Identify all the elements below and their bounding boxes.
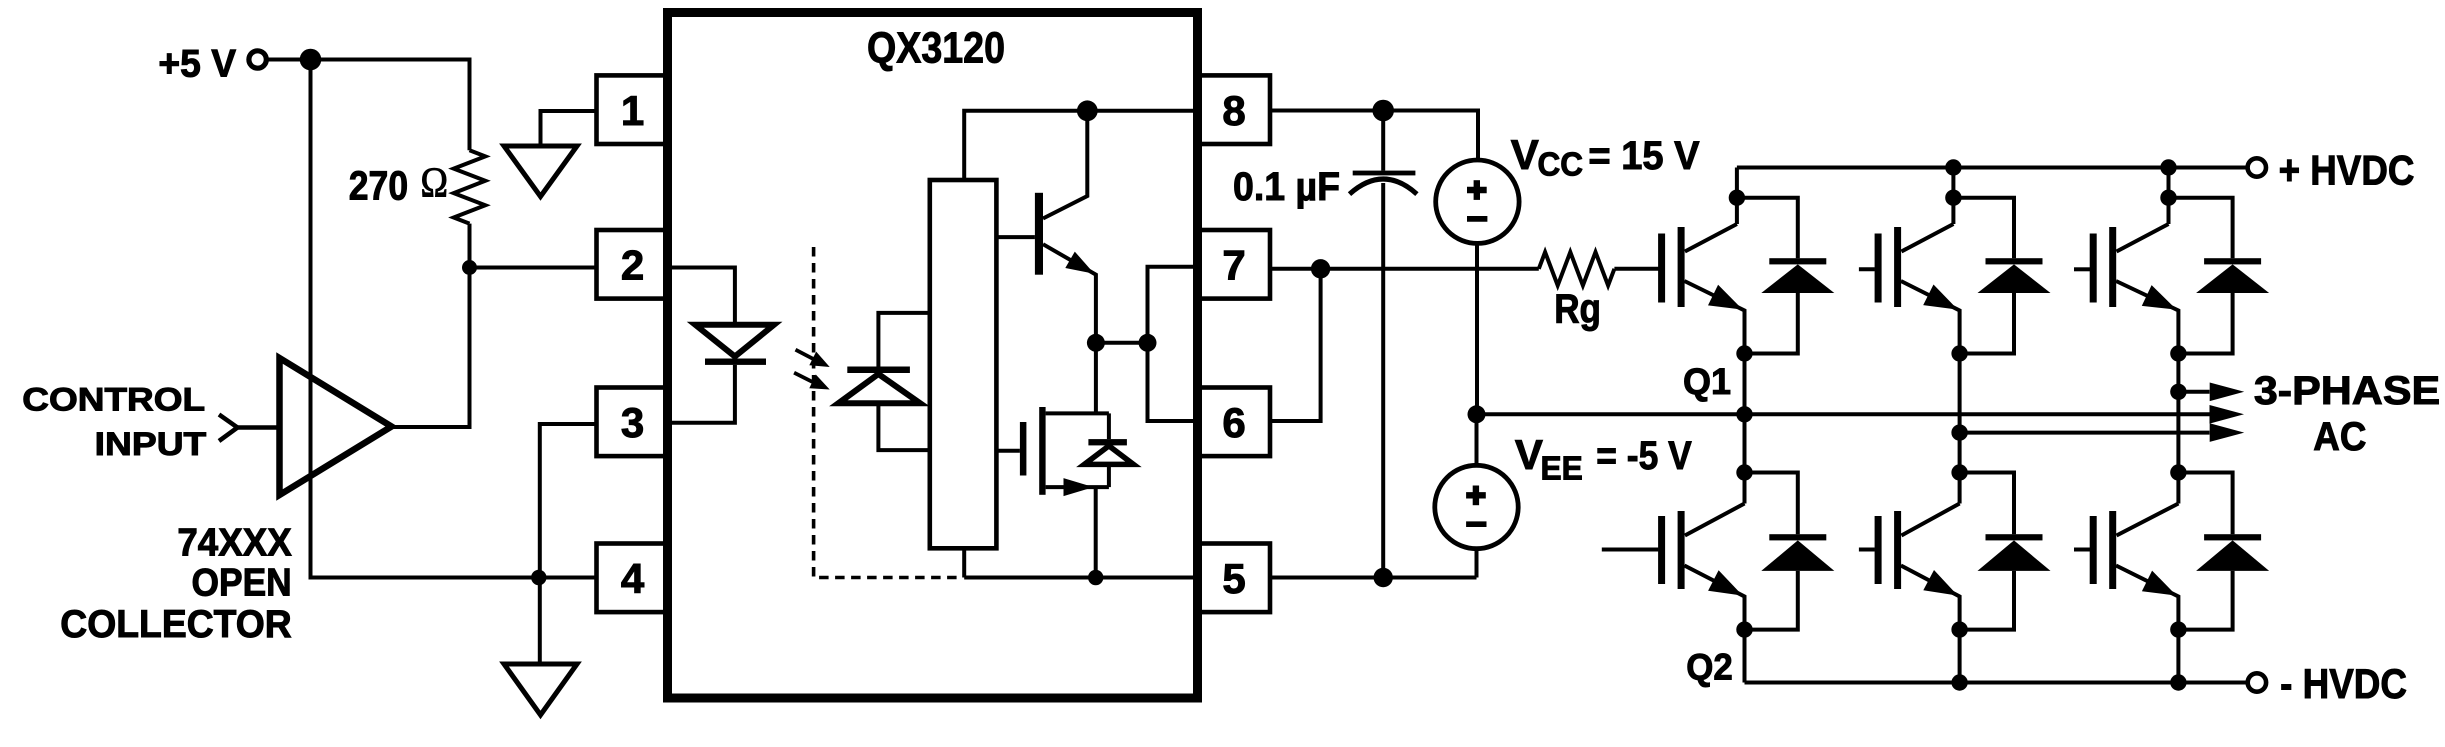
buffer 74XXX triangle bbox=[280, 358, 392, 495]
junction VEE/phase node bbox=[1468, 405, 1486, 423]
pin 7 box bbox=[1198, 230, 1270, 299]
wire node down to ground bbox=[538, 578, 542, 665]
svg-text:= -5 V: = -5 V bbox=[1596, 434, 1692, 478]
capacitor C1 curved plate bbox=[1350, 179, 1417, 194]
wire emitter to -HVDC leg 2 bbox=[1958, 630, 1962, 683]
svg-text:0.1 µF: 0.1 µF bbox=[1233, 165, 1340, 209]
pin 8 box bbox=[1198, 75, 1270, 144]
MOSFET source down lead bbox=[1094, 487, 1098, 577]
svg-text:3-PHASE: 3-PHASE bbox=[2254, 369, 2440, 413]
svg-text:OPEN: OPEN bbox=[192, 562, 292, 605]
capacitor C1 top plate bbox=[1353, 171, 1416, 176]
svg-text:1: 1 bbox=[621, 87, 644, 134]
-HVDC terminal circle bbox=[2248, 673, 2266, 691]
MOSFET gate lead bbox=[996, 449, 1020, 453]
+HVDC rail bbox=[1737, 166, 2248, 170]
svg-text:= 15 V: = 15 V bbox=[1588, 134, 1699, 178]
capacitor C1 bottom lead bbox=[1381, 183, 1385, 578]
wire Rg to Q1 gate bbox=[1614, 267, 1658, 271]
junction phase node leg 2 bbox=[1951, 424, 1967, 440]
junction +HVDC rail leg 3 bbox=[2160, 159, 2176, 175]
junction pin5 internal node bbox=[1088, 570, 1103, 585]
wire resistor bottom to pin 2 bbox=[468, 224, 472, 268]
svg-text:INPUT: INPUT bbox=[95, 426, 207, 462]
pin 3 box bbox=[597, 388, 669, 457]
pin 6 box bbox=[1198, 388, 1270, 457]
transistor top IGBT phase C bbox=[2074, 168, 2187, 362]
capacitor C1 top lead bbox=[1381, 111, 1385, 171]
MOSFET gate bar bbox=[1020, 422, 1027, 476]
wire node to pin 4 bbox=[539, 576, 597, 580]
+HVDC terminal circle bbox=[2248, 158, 2266, 176]
source VEE circle bbox=[1435, 465, 1518, 548]
op-amp IC QX3120 body bbox=[668, 13, 1198, 699]
photodiode cathode bar bbox=[847, 367, 910, 374]
light arrow 2 bbox=[794, 373, 817, 385]
svg-text:EE: EE bbox=[1541, 449, 1583, 486]
wire buffer output up to pin2 node bbox=[393, 268, 470, 428]
svg-text:V: V bbox=[1511, 131, 1539, 178]
svg-text:Q2: Q2 bbox=[1686, 646, 1733, 688]
junction phase node leg 3 bbox=[2170, 384, 2186, 400]
MOSFET channel bar bbox=[1039, 407, 1045, 495]
wire phase drop leg 3 bbox=[2176, 354, 2180, 473]
junction resistor/pin2/buffer-output node bbox=[462, 260, 477, 275]
svg-text:Rg: Rg bbox=[1554, 285, 1601, 331]
svg-text:4: 4 bbox=[621, 555, 645, 602]
wire phase B bbox=[1960, 431, 2210, 435]
junction pin7/pin6 node bbox=[1311, 259, 1330, 278]
transistor Q2 (lower IGBT) bbox=[1602, 464, 1753, 638]
wire LED cathode to pin 3 bbox=[671, 365, 735, 423]
body diode anode lead bbox=[1107, 464, 1111, 487]
wire pin 7 to Rg bbox=[1270, 267, 1539, 271]
wire emitter to -HVDC leg 3 bbox=[2176, 630, 2180, 683]
diode antiparallel bottom leg 1 bbox=[1745, 473, 1835, 630]
body diode cathode lead bbox=[1107, 413, 1111, 439]
svg-text:V: V bbox=[1515, 431, 1543, 478]
wire phase drop leg 1 bbox=[1743, 354, 1747, 473]
wire output nodes bbox=[1096, 341, 1148, 345]
svg-text:CONTROL: CONTROL bbox=[22, 382, 205, 418]
photodiode triangle bbox=[838, 374, 920, 403]
wire pin 3 to node bbox=[540, 424, 597, 578]
body diode triangle bbox=[1084, 446, 1133, 465]
junction -HVDC rail leg 2 bbox=[1951, 674, 1967, 690]
diode antiparallel bottom leg 3 bbox=[2178, 473, 2269, 630]
resistor Rg bbox=[1539, 252, 1615, 285]
svg-text:6: 6 bbox=[1222, 399, 1245, 446]
VCC minus sign bbox=[1467, 216, 1487, 222]
MOSFET drain lead bbox=[1094, 343, 1098, 414]
transistor bottom IGBT phase C bbox=[2074, 464, 2187, 638]
wire pin2 to LED anode bbox=[671, 268, 735, 323]
svg-text:8: 8 bbox=[1222, 87, 1245, 134]
MOSFET source wire with arrow bbox=[1046, 485, 1109, 489]
wire photodiode cathode to amp bbox=[878, 313, 929, 367]
svg-text:AC: AC bbox=[2313, 415, 2366, 459]
VEE plus sign bbox=[1466, 492, 1486, 498]
wire +5V rail down to pin4 net bbox=[311, 60, 539, 578]
svg-text:74XXX: 74XXX bbox=[177, 521, 292, 564]
svg-text:QX3120: QX3120 bbox=[867, 24, 1005, 73]
VEE minus sign bbox=[1466, 521, 1486, 527]
wire chevron to buffer input bbox=[238, 425, 279, 430]
wire pin 8 to Vcc bbox=[1270, 111, 1478, 161]
junction pin3/pin4/ground node bbox=[531, 570, 546, 585]
wire node B to pin 7 bbox=[1148, 267, 1198, 343]
svg-text:3: 3 bbox=[621, 399, 644, 446]
wire amp bottom to pin 5 bbox=[964, 548, 1197, 577]
wire pin 6 up to pin 7 net bbox=[1270, 269, 1321, 421]
+5V terminal circle bbox=[249, 51, 266, 68]
svg-text:Q1: Q1 bbox=[1683, 360, 1731, 402]
junction phase node leg 1 bbox=[1736, 406, 1752, 422]
pin 2 box bbox=[597, 230, 669, 299]
svg-text:+ HVDC: + HVDC bbox=[2279, 147, 2415, 194]
wire phase A bbox=[1477, 412, 2210, 416]
transistor top IGBT phase B bbox=[1859, 168, 1968, 362]
svg-text:+5 V: +5 V bbox=[158, 43, 236, 86]
NPN collector bbox=[1043, 111, 1087, 219]
junction NPN collector node bbox=[1077, 100, 1098, 121]
svg-text:CC: CC bbox=[1538, 146, 1584, 183]
pin 5 box bbox=[1198, 544, 1270, 613]
diode antiparallel top leg 2 bbox=[1953, 198, 2050, 354]
svg-text:- HVDC: - HVDC bbox=[2280, 660, 2407, 707]
VEE bottom lead bbox=[1475, 548, 1479, 578]
NPN emitter with arrow bbox=[1043, 244, 1096, 343]
transistor Q NPN body bar bbox=[1035, 193, 1043, 275]
light arrow 1 bbox=[796, 350, 819, 362]
dashed isolation boundary bbox=[814, 247, 962, 578]
junction cap top bbox=[1372, 100, 1394, 122]
LED D1 triangle bbox=[695, 325, 774, 357]
ground symbol lower bbox=[504, 664, 577, 715]
diode antiparallel bottom leg 2 bbox=[1960, 473, 2051, 630]
NPN base wire bbox=[996, 235, 1035, 239]
body diode cathode bar bbox=[1088, 439, 1127, 445]
svg-text:7: 7 bbox=[1222, 242, 1245, 289]
resistor R 270 ohm bbox=[454, 150, 486, 223]
diode antiparallel top leg 1 bbox=[1737, 198, 1834, 354]
source VCC circle bbox=[1436, 160, 1519, 243]
junction cap bottom bbox=[1374, 568, 1393, 587]
junction -HVDC rail leg 3 bbox=[2170, 674, 2186, 690]
svg-text:2: 2 bbox=[621, 242, 644, 289]
pin 1 box bbox=[597, 75, 669, 144]
transistor bottom IGBT phase B bbox=[1859, 464, 1968, 638]
phase B arrowhead bbox=[2210, 423, 2245, 442]
phase C arrowhead bbox=[2210, 383, 2245, 402]
wire node B to pin 6 bbox=[1148, 343, 1198, 421]
VEE top lead bbox=[1475, 414, 1479, 466]
MOSFET top bar wire bbox=[1046, 411, 1109, 415]
svg-text:Ω: Ω bbox=[421, 160, 449, 206]
junction +5V node bbox=[300, 49, 322, 71]
svg-text:5: 5 bbox=[1222, 555, 1245, 602]
wire phase drop leg 2 bbox=[1958, 354, 1962, 473]
wire pin 5 to VEE bbox=[1270, 576, 1477, 580]
ground symbol upper bbox=[504, 146, 577, 197]
junction +HVDC rail leg 2 bbox=[1945, 159, 1961, 175]
VCC plus sign bbox=[1467, 187, 1487, 193]
svg-text:COLLECTOR: COLLECTOR bbox=[60, 603, 292, 646]
wire +5V to resistor top corner bbox=[267, 60, 470, 151]
VCC bottom lead to phase node bbox=[1475, 243, 1479, 415]
transistor Q1 (driven IGBT) bbox=[1658, 168, 1753, 362]
amplifier block U1 bbox=[930, 180, 997, 548]
wire amp top to pin 8 rail bbox=[964, 111, 1197, 180]
svg-text:270: 270 bbox=[349, 163, 408, 209]
phase A arrowhead bbox=[2210, 405, 2245, 424]
wire pin 1 to ground bbox=[541, 111, 598, 146]
junction output node A bbox=[1087, 334, 1105, 352]
LED D1 cathode bar bbox=[705, 359, 766, 365]
wire emitter to -HVDC leg 1 bbox=[1743, 630, 1747, 683]
wire phase C bbox=[2178, 390, 2209, 394]
-HVDC rail bbox=[1745, 681, 2248, 685]
input chevron bbox=[219, 415, 238, 442]
diode antiparallel top leg 3 bbox=[2169, 198, 2270, 354]
wire photodiode anode to amp bbox=[878, 406, 929, 451]
junction output node B bbox=[1139, 334, 1157, 352]
pin 4 box bbox=[597, 544, 669, 613]
